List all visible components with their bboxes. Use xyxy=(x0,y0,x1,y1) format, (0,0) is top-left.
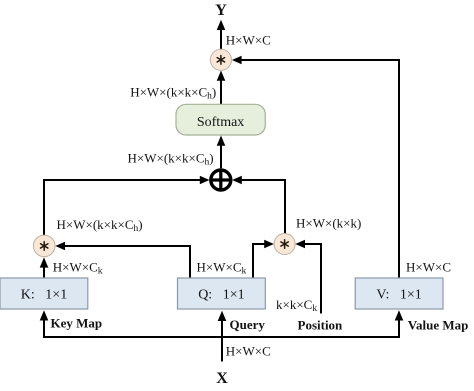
wire right multiply to plus node xyxy=(232,176,285,234)
svg-text:H×W×Ck: H×W×Ck xyxy=(53,259,103,276)
multiply node right (convolution) xyxy=(274,234,295,255)
svg-text:X: X xyxy=(216,370,228,387)
svg-text:H×W×C: H×W×C xyxy=(226,343,271,358)
box Q xyxy=(178,278,266,309)
box K xyxy=(0,278,88,309)
multiply node left (convolution) xyxy=(33,235,55,257)
svg-text:K: 1×1: K: 1×1 xyxy=(21,288,67,303)
box V xyxy=(355,278,443,309)
wire Q to left multiply xyxy=(55,242,190,278)
svg-text:H×W×Ck: H×W×Ck xyxy=(197,259,247,276)
wire position to right multiply xyxy=(295,240,321,314)
svg-text:Key Map: Key Map xyxy=(51,316,103,331)
plus node (circled plus) xyxy=(211,170,231,190)
svg-text:H×W×C: H×W×C xyxy=(226,32,271,47)
multiply node top (convolution) xyxy=(210,49,231,70)
svg-text:H×W×(k×k×Ch): H×W×(k×k×Ch) xyxy=(57,217,143,234)
svg-text:Value Map: Value Map xyxy=(408,318,469,333)
svg-text:Q: 1×1: Q: 1×1 xyxy=(198,288,244,303)
svg-text:Softmax: Softmax xyxy=(197,115,244,130)
wire K to left multiply xyxy=(40,257,49,277)
arrow into K from bus xyxy=(40,310,49,320)
wire Q to right multiply xyxy=(253,240,274,278)
svg-text:Position: Position xyxy=(298,318,344,333)
wire from V line into top multiply circle xyxy=(232,56,399,278)
wire X input to Q xyxy=(218,311,227,362)
svg-text:H×W×(k×k): H×W×(k×k) xyxy=(296,215,361,230)
svg-text:H×W×C: H×W×C xyxy=(406,260,451,275)
svg-text:Query: Query xyxy=(230,317,266,332)
wire plus node to softmax xyxy=(217,136,226,169)
softmax box xyxy=(176,104,265,135)
wire softmax to top multiply circle xyxy=(217,71,226,105)
arrow into V from bus xyxy=(395,310,404,320)
svg-text:H×W×(k×k×Ch): H×W×(k×k×Ch) xyxy=(130,84,216,101)
wire bottom bus xyxy=(44,320,399,338)
svg-text:k×k×Ck: k×k×Ck xyxy=(276,297,317,314)
svg-text:Y: Y xyxy=(215,2,227,19)
wire left multiply to plus node xyxy=(44,176,210,235)
svg-text:H×W×(k×k×Ch): H×W×(k×k×Ch) xyxy=(128,151,214,168)
svg-text:V: 1×1: V: 1×1 xyxy=(376,288,421,303)
wire Y output arrow xyxy=(217,20,226,50)
